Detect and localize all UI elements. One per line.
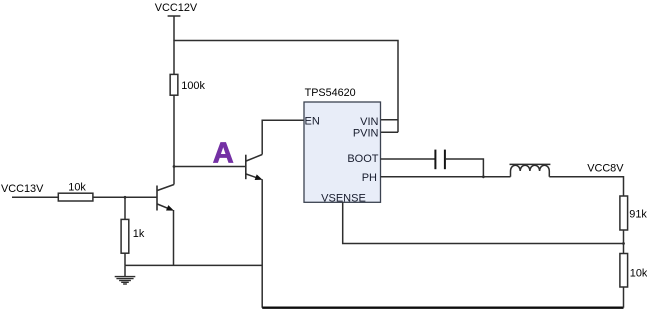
- wire R4 bottom to feedback rail: [623, 230, 625, 244]
- wire ground rail: [125, 264, 262, 266]
- resistor R3 1k: [121, 219, 129, 253]
- svg-text:VIN: VIN: [360, 116, 378, 128]
- svg-text:100k: 100k: [181, 80, 205, 92]
- wire Q2 collector to EN: [262, 120, 304, 154]
- wire node to R3: [124, 197, 126, 219]
- wire bottom rail: [262, 307, 623, 309]
- wire VCC13V input to R2: [12, 196, 58, 198]
- transistor Q2: [246, 155, 262, 308]
- IC U1 TPS54620 regulator body: [304, 102, 381, 202]
- svg-text:EN: EN: [305, 115, 320, 127]
- wire C1 to PH node: [446, 159, 484, 177]
- svg-text:PH: PH: [362, 172, 377, 184]
- junction PH node: [482, 175, 485, 178]
- svg-text:VSENSE: VSENSE: [321, 193, 366, 205]
- wire VIN pin: [381, 119, 399, 121]
- wire R3 bottom to ground rail: [124, 253, 126, 265]
- svg-text:TPS54620: TPS54620: [305, 87, 356, 99]
- wire top rail from VCC12V to VIN/PVIN column: [174, 41, 398, 133]
- svg-text:10k: 10k: [630, 268, 647, 280]
- wire 10k bottom to rail: [623, 287, 625, 308]
- wire R2 to Q1 base: [93, 196, 157, 198]
- svg-text:1k: 1k: [133, 228, 145, 240]
- wire VSENSE feedback rail: [343, 202, 624, 243]
- wire PVIN pin: [381, 131, 399, 133]
- capacitor C1: [435, 150, 445, 170]
- resistor R2 10k: [58, 193, 93, 201]
- wire VCC12V stem to resistor R1: [173, 41, 175, 75]
- wire BOOT to capacitor C1: [381, 158, 435, 160]
- wire L1 to VCC8V node: [549, 177, 623, 196]
- svg-text:VCC13V: VCC13V: [1, 183, 44, 195]
- svg-text:A: A: [213, 137, 234, 169]
- resistor R1 100k: [170, 74, 178, 95]
- resistor R4 91k: [620, 196, 628, 230]
- ground: [115, 265, 136, 284]
- svg-text:PVIN: PVIN: [353, 127, 379, 139]
- junction feedback node: [622, 242, 625, 245]
- svg-text:VCC8V: VCC8V: [587, 162, 624, 174]
- inductor L1: [510, 164, 551, 176]
- wire feedback node to R5: [623, 244, 625, 254]
- transistor Q1: [157, 185, 174, 266]
- svg-text:BOOT: BOOT: [347, 153, 378, 165]
- resistor R5 10k: [620, 254, 628, 288]
- wire PH to inductor L1: [381, 176, 511, 178]
- wire R1 bottom to Q1 collector: [173, 95, 175, 184]
- junction node A: [173, 165, 176, 168]
- svg-text:91k: 91k: [629, 209, 647, 221]
- wire node A to Q2 base: [174, 166, 246, 168]
- svg-text:VCC12V: VCC12V: [155, 2, 198, 14]
- svg-text:10k: 10k: [68, 181, 86, 193]
- power symbol VCC12V: [168, 16, 181, 41]
- junction base node: [124, 196, 127, 199]
